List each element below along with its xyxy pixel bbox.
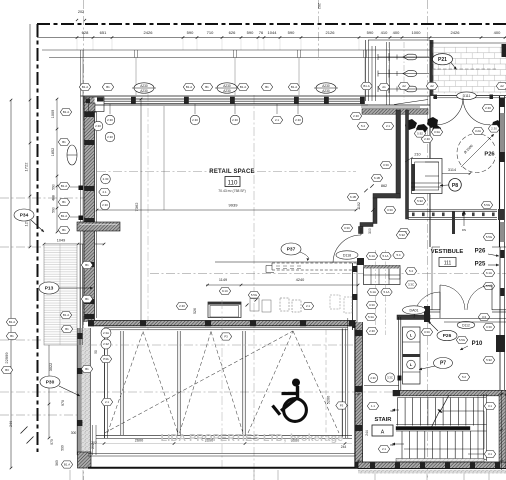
niche bottom wall	[411, 182, 441, 184]
stair landing divider	[477, 397, 479, 462]
svg-text:B1.A: B1.A	[363, 84, 369, 88]
divider wall storefront-stair	[354, 322, 356, 468]
P7 cabinet circle 2	[407, 360, 416, 369]
grid centerline vertical E	[427, 0, 429, 480]
svg-text:300: 300	[71, 431, 77, 435]
storefront long dashed diagonal	[105, 331, 294, 433]
svg-text:970: 970	[61, 400, 65, 406]
canopy line lower	[49, 57, 430, 59]
svg-text:6.1B: 6.1B	[350, 195, 356, 199]
left wall top corner assembly	[84, 97, 104, 112]
svg-text:9R: 9R	[390, 409, 394, 413]
tag B1 top 3	[261, 83, 272, 90]
svg-text:VESTIBULE: VESTIBULE	[431, 249, 464, 255]
dim marks left of stair wall	[357, 393, 359, 395]
accessible symbol foot	[273, 406, 281, 415]
svg-text:B1.A: B1.A	[61, 214, 67, 218]
top-left wall corner return	[84, 96, 97, 112]
svg-text:862: 862	[381, 184, 387, 188]
vestibule right tags	[483, 233, 494, 240]
svg-text:B1.A: B1.A	[63, 110, 69, 114]
svg-text:2.30: 2.30	[491, 127, 497, 131]
svg-text:LIDA PROPERTIES LTD, brokerage: LIDA PROPERTIES LTD, brokerage	[161, 432, 344, 444]
top dim extension lines	[76, 38, 78, 50]
left wall dimension 1009 1852	[56, 99, 58, 232]
tag ellipse A230 3	[316, 83, 336, 93]
right wall upper window	[499, 96, 501, 247]
svg-text:2.1: 2.1	[275, 118, 279, 122]
closet wall left	[373, 198, 377, 224]
property line vertical	[37, 24, 39, 452]
svg-text:B1.A: B1.A	[63, 313, 69, 317]
door D111 label	[457, 92, 477, 100]
DA01 wall	[397, 315, 430, 320]
svg-text:3.1: 3.1	[488, 404, 492, 408]
grid stub marks bottom margin	[69, 470, 71, 480]
grid centerline vertical B	[147, 92, 149, 330]
svg-text:400: 400	[494, 30, 501, 35]
svg-text:76: 76	[259, 30, 264, 35]
stair tags	[367, 402, 378, 409]
svg-text:410: 410	[381, 30, 388, 35]
vestibule double door arc left	[440, 285, 465, 310]
svg-text:3.3C: 3.3C	[383, 163, 389, 167]
svg-text:590: 590	[61, 445, 65, 451]
P3 tag on wall	[220, 333, 231, 340]
svg-text:B1.A: B1.A	[64, 463, 70, 467]
tag ellipse A230 2	[217, 83, 237, 93]
svg-text:B1: B1	[65, 327, 69, 331]
svg-text:2126: 2126	[326, 30, 336, 35]
tag B1 top 2	[201, 83, 212, 90]
svg-text:5.4: 5.4	[361, 124, 365, 128]
svg-text:300: 300	[368, 228, 372, 234]
svg-text:1852: 1852	[51, 148, 55, 156]
svg-text:6.1A: 6.1A	[486, 271, 492, 275]
toilet fixtures	[378, 56, 429, 58]
storefront head lines	[104, 327, 348, 329]
right wall top block	[502, 44, 506, 57]
svg-text:244: 244	[9, 421, 13, 427]
bottom-left wall corner block	[78, 452, 92, 468]
accessible symbol body and arm	[296, 386, 299, 399]
tag 5.92 WC	[414, 130, 425, 137]
kitchen equipment rects	[208, 302, 241, 318]
svg-text:A2: A2	[402, 84, 406, 88]
svg-text:RETAIL SPACE: RETAIL SPACE	[209, 169, 254, 175]
svg-text:2.30: 2.30	[485, 106, 491, 110]
left wall lower section	[76, 328, 78, 455]
toilet area left edge line	[365, 40, 367, 101]
P26 label WC	[481, 148, 498, 157]
DA01 label	[403, 306, 426, 314]
stair right wall hatch	[499, 394, 506, 462]
svg-text:A1: A1	[382, 85, 386, 89]
svg-text:P10: P10	[472, 341, 483, 347]
svg-text:B1: B1	[85, 263, 89, 267]
left wall lower piers	[77, 333, 82, 339]
svg-text:A230: A230	[223, 89, 231, 93]
svg-text:6.1A: 6.1A	[369, 254, 375, 258]
svg-text:526: 526	[193, 308, 197, 314]
grid centerline through storefront	[88, 344, 360, 346]
stair break line	[441, 395, 449, 410]
wall right of partitions	[429, 40, 431, 247]
svg-text:590: 590	[247, 30, 254, 35]
exterior heavy edge line	[88, 467, 506, 469]
svg-text:A2: A2	[500, 84, 504, 88]
left wall outer face lines	[80, 50, 82, 440]
svg-text:1000: 1000	[412, 30, 422, 35]
svg-text:2.3A: 2.3A	[103, 331, 109, 335]
svg-text:2.1: 2.1	[382, 447, 386, 451]
tag 3.3C DA01	[421, 328, 432, 335]
tag A2 1	[398, 82, 409, 89]
svg-text:202: 202	[91, 443, 95, 449]
P26 label DA01	[437, 330, 457, 340]
left wall core	[84, 97, 95, 322]
stair bottom landing hatch	[396, 459, 484, 462]
closet wall hook	[359, 227, 364, 234]
svg-text:3114: 3114	[448, 168, 456, 172]
DA01 door leaf	[439, 292, 441, 318]
svg-text:2.30: 2.30	[295, 118, 301, 122]
brick area hidden dashed line	[432, 68, 497, 70]
door D111 lintel	[433, 95, 506, 97]
dimension 5200 vertical	[325, 330, 327, 434]
svg-text:D118: D118	[343, 253, 351, 257]
svg-text:2.30: 2.30	[102, 203, 108, 207]
grid centerline horizontal row5	[0, 339, 84, 341]
tag A1	[378, 83, 389, 90]
svg-text:626: 626	[229, 30, 236, 35]
counter dashed outline	[272, 262, 358, 264]
left edge tags	[6, 318, 17, 325]
grid centerline through retail	[97, 171, 356, 173]
svg-text:3.3C: 3.3C	[486, 325, 492, 329]
kitchen small dashed items	[250, 298, 259, 311]
svg-text:A230: A230	[140, 84, 148, 88]
svg-text:2.30: 2.30	[232, 118, 238, 122]
grid centerline vertical D	[318, 0, 320, 60]
svg-text:2.30: 2.30	[353, 114, 359, 118]
turning circle P26	[457, 134, 496, 173]
canopy mullion ticks	[135, 58, 137, 96]
toilet fixture centerlines	[388, 42, 390, 100]
left wall jog block	[77, 222, 120, 231]
svg-text:400: 400	[393, 30, 400, 35]
top wall head line	[81, 95, 431, 97]
dimension 1149 4240	[206, 284, 358, 286]
DA01 door arc	[414, 292, 440, 318]
svg-text:5.92: 5.92	[486, 358, 492, 362]
svg-text:B1: B1	[10, 334, 14, 338]
svg-text:5.92: 5.92	[399, 233, 405, 237]
svg-text:A230: A230	[322, 89, 330, 93]
P13 hatched area	[44, 244, 77, 345]
svg-text:A: A	[381, 430, 385, 436]
svg-text:A230: A230	[223, 84, 231, 88]
grid centerline horizontal row4 storefront	[0, 391, 430, 393]
right margin dim line stair	[501, 390, 503, 470]
P34 label	[14, 209, 34, 221]
svg-text:5.92: 5.92	[417, 199, 423, 203]
brick hatch area	[433, 46, 506, 48]
storage casework hatch strip	[364, 266, 401, 269]
svg-text:A230: A230	[322, 84, 330, 88]
svg-text:5.5G: 5.5G	[486, 235, 493, 239]
left fixture oval	[67, 145, 77, 165]
storage wall vertical	[352, 263, 354, 330]
vestibule tags row	[366, 252, 377, 259]
ramp corridor wall lower	[408, 216, 497, 218]
canopy line upper	[42, 49, 430, 51]
door D112 label	[457, 321, 475, 328]
left wall circles 2.30 2.1	[101, 174, 111, 184]
svg-text:488: 488	[52, 195, 56, 201]
svg-text:DN: DN	[462, 228, 466, 232]
svg-text:1049: 1049	[57, 239, 65, 243]
grid centerline vertical storefront	[221, 300, 223, 470]
storefront sill lines	[96, 434, 352, 436]
svg-text:P8: P8	[452, 183, 458, 189]
svg-text:D111: D111	[463, 94, 471, 98]
ramp corridor wall upper	[408, 209, 497, 211]
leader dots top wall	[109, 104, 111, 114]
tag ellipse A230 1	[134, 83, 154, 93]
svg-text:5.3A: 5.3A	[368, 315, 374, 319]
storefront door swing dashed bay 1	[108, 332, 144, 434]
svg-text:2426: 2426	[451, 30, 461, 35]
svg-text:1722: 1722	[24, 162, 29, 172]
top wall sill line	[88, 104, 368, 106]
svg-text:2.1: 2.1	[102, 190, 106, 194]
closet wall bottom	[360, 223, 373, 227]
left outer dimension line 22999	[10, 100, 12, 468]
svg-text:3.3C: 3.3C	[424, 330, 430, 334]
right wall lower	[499, 247, 501, 468]
P21 label	[433, 54, 453, 65]
door D111 right leaf arc	[463, 98, 490, 125]
property line corner slash marks	[21, 427, 28, 434]
svg-text:P13: P13	[45, 285, 54, 291]
svg-text:B1: B1	[62, 200, 66, 204]
storage casework	[364, 266, 401, 285]
svg-text:5200: 5200	[327, 396, 331, 404]
svg-text:2.30: 2.30	[107, 118, 113, 122]
retail south wall	[88, 321, 356, 326]
counter solid line	[215, 261, 358, 263]
tag 2.30 wall	[176, 302, 187, 309]
stair vestibule west wall	[398, 317, 400, 391]
dashed chairs right	[330, 295, 340, 309]
svg-text:5.2: 5.2	[462, 375, 466, 379]
vestibule double door arc right	[467, 285, 492, 310]
svg-text:590: 590	[187, 30, 194, 35]
svg-text:1102: 1102	[357, 202, 361, 210]
tag A2 2	[426, 82, 437, 89]
svg-text:9939: 9939	[229, 202, 239, 207]
toilet area top line	[368, 39, 430, 41]
svg-text:1149: 1149	[219, 278, 227, 282]
tag 2.30 WC	[421, 135, 432, 142]
grid centerline vertical A	[83, 0, 85, 130]
dimension 9939	[97, 209, 356, 211]
svg-text:5.1A: 5.1A	[383, 254, 389, 258]
svg-text:DA01: DA01	[410, 308, 419, 312]
svg-text:B1: B1	[265, 85, 269, 89]
svg-text:B1.A: B1.A	[9, 320, 15, 324]
svg-text:P26: P26	[475, 249, 486, 255]
svg-text:2.1: 2.1	[105, 400, 109, 404]
left dimension 3000 690 3022	[48, 247, 50, 438]
svg-text:9.1C: 9.1C	[222, 289, 228, 293]
tag 5.5G near P10	[456, 336, 467, 343]
tag 3.3A WC	[431, 128, 442, 135]
tag B1.A top 4	[288, 83, 299, 90]
grid centerline horizontal row3 vestibule	[150, 273, 506, 275]
svg-text:3.2A: 3.2A	[475, 129, 481, 133]
svg-text:B1: B1	[106, 85, 110, 89]
svg-text:5.5G: 5.5G	[484, 203, 491, 207]
svg-text:210: 210	[414, 153, 420, 157]
P8 label	[449, 179, 462, 192]
left wall leader dots	[79, 186, 84, 191]
svg-text:P7: P7	[440, 360, 446, 366]
top wall piers	[131, 97, 136, 104]
vestibule south wall	[430, 309, 440, 311]
grid centerline horizontal row2	[0, 246, 80, 248]
corridor tags	[350, 112, 361, 119]
svg-text:2.30: 2.30	[95, 124, 101, 128]
extension line retail	[163, 106, 165, 210]
accessible symbol wheel	[284, 399, 307, 422]
svg-text:111: 111	[444, 261, 452, 267]
svg-text:B1.A: B1.A	[240, 85, 246, 89]
P30 label	[40, 376, 60, 388]
door D118 hinge block	[357, 258, 364, 265]
stair lower flight treads	[401, 431, 403, 460]
svg-text:D112: D112	[462, 323, 470, 327]
tag P3 jamb	[336, 402, 347, 409]
wall type circles below top wall	[105, 115, 115, 125]
storefront mullions	[104, 329, 106, 439]
svg-text:5.4: 5.4	[409, 269, 413, 273]
left wall tag column	[60, 108, 71, 115]
counter line right of DA01	[430, 318, 506, 320]
svg-text:2.30: 2.30	[192, 118, 198, 122]
south wall stair dark band	[358, 462, 506, 469]
svg-text:P3: P3	[224, 335, 228, 339]
svg-text:2426: 2426	[144, 30, 154, 35]
dimension 3114	[434, 173, 470, 175]
P7 cabinet	[403, 327, 421, 384]
sidewalk speckle strip	[358, 470, 506, 474]
room number box 111	[439, 258, 456, 267]
stair inner guard rectangle	[442, 410, 484, 412]
P13 label	[39, 282, 59, 294]
grid centerline horizontal row6	[0, 414, 84, 416]
svg-text:2.30: 2.30	[424, 137, 430, 141]
svg-text:2.30: 2.30	[179, 304, 185, 308]
storefront door swing dashed bay 3	[248, 331, 293, 433]
P37 label	[281, 243, 301, 255]
south wall bottom edge line	[358, 468, 506, 470]
svg-text:3.3C: 3.3C	[369, 303, 375, 307]
closet wall top	[373, 194, 400, 199]
svg-text:STAIR: STAIR	[375, 417, 393, 423]
ramp corridor studs	[412, 213, 415, 217]
vestibule fixture centerlines	[375, 250, 377, 335]
tag 3.2A WC	[472, 127, 483, 134]
tag B1 top 1	[102, 83, 113, 90]
accessible symbol head	[292, 379, 300, 387]
door D111 left leaf arc	[436, 98, 463, 125]
dimension 7362 vertical	[140, 99, 142, 322]
tag 5.92 below	[483, 356, 494, 363]
svg-text:2600: 2600	[135, 438, 143, 442]
vestibule double door leaf left	[439, 285, 441, 310]
grid centerline vertical C	[253, 95, 255, 480]
svg-text:B1: B1	[85, 367, 89, 371]
svg-text:P26: P26	[443, 333, 452, 339]
door D118 label	[336, 251, 358, 259]
svg-text:3.3C: 3.3C	[408, 283, 414, 287]
stair direction arrow up	[392, 409, 399, 411]
storefront dimension row	[96, 443, 352, 445]
svg-text:202: 202	[78, 10, 84, 14]
svg-text:6.1B: 6.1B	[374, 176, 380, 180]
svg-text:A2: A2	[430, 84, 434, 88]
top wall glazing lines	[104, 98, 364, 100]
door D118 arc	[333, 235, 361, 263]
left wall lower inner lines	[92, 425, 94, 455]
svg-text:110: 110	[228, 179, 238, 186]
wall connector sloped top	[394, 100, 428, 105]
svg-text:3.3C: 3.3C	[387, 208, 393, 212]
svg-text:70.43 m² (758 SF): 70.43 m² (758 SF)	[218, 189, 246, 193]
exterior walk lines	[88, 453, 363, 455]
svg-text:B1: B1	[205, 85, 209, 89]
turning circle diameter arrow	[461, 134, 494, 167]
svg-text:P30: P30	[46, 379, 55, 385]
svg-text:P25: P25	[475, 262, 486, 268]
retail south wall piers	[88, 320, 94, 326]
svg-text:5.1A: 5.1A	[384, 290, 390, 294]
stair right stringer	[483, 394, 485, 461]
svg-text:P3: P3	[340, 404, 344, 408]
svg-text:628: 628	[82, 30, 89, 35]
brick area top edge	[430, 42, 506, 44]
P7 cabinet circle 1	[407, 331, 416, 340]
svg-text:A230: A230	[140, 89, 148, 93]
toilet partition vertical lines	[371, 46, 373, 101]
accessible symbol leg	[281, 398, 297, 411]
svg-text:B1: B1	[62, 140, 66, 144]
top dimension line	[37, 37, 506, 39]
tag 5.5G kitchen	[248, 291, 259, 298]
ramp wall stub	[452, 211, 455, 234]
tag B1.A top 2	[183, 83, 194, 90]
svg-text:5.4: 5.4	[396, 253, 400, 257]
svg-text:B1: B1	[85, 297, 89, 301]
door D111 jambs	[434, 95, 438, 100]
svg-text:P26: P26	[484, 152, 495, 158]
svg-text:244: 244	[365, 430, 369, 436]
vestibule double door leaf right	[491, 285, 493, 310]
svg-text:2.3Z: 2.3Z	[103, 342, 109, 346]
corridor wall east	[406, 110, 409, 219]
